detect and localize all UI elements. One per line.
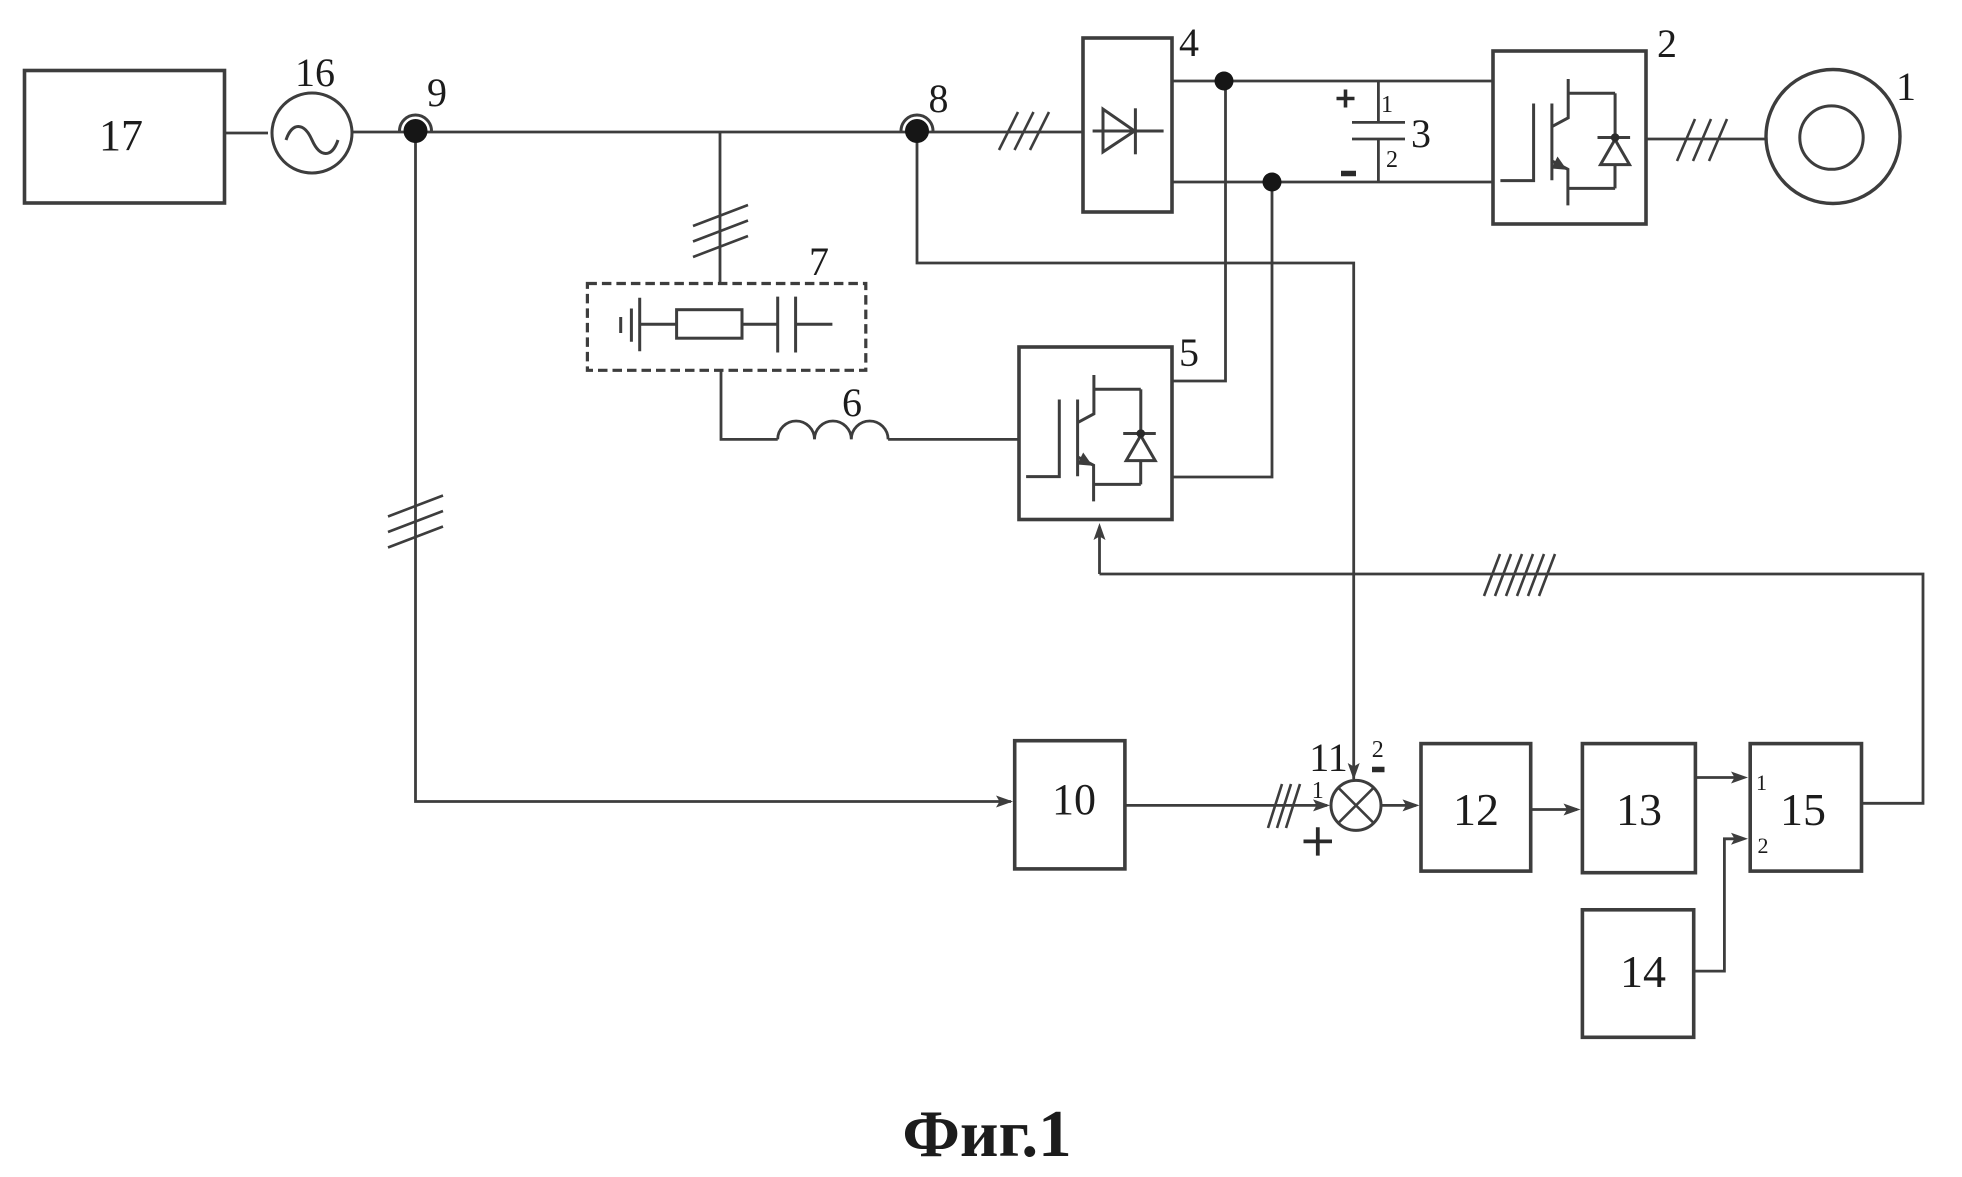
svg-text:7: 7 — [809, 239, 829, 284]
svg-text:8: 8 — [929, 76, 949, 121]
svg-text:15: 15 — [1780, 784, 1826, 835]
svg-text:1: 1 — [1896, 64, 1916, 109]
svg-text:6: 6 — [842, 380, 862, 425]
svg-text:5: 5 — [1179, 330, 1199, 375]
svg-text:12: 12 — [1453, 784, 1499, 835]
svg-text:2: 2 — [1758, 833, 1769, 858]
svg-text:11: 11 — [1309, 735, 1348, 780]
svg-text:2: 2 — [1372, 737, 1384, 763]
svg-text:2: 2 — [1386, 147, 1398, 173]
svg-text:1: 1 — [1381, 92, 1393, 118]
svg-text:16: 16 — [295, 50, 335, 95]
svg-text:Фиг.1: Фиг.1 — [902, 1097, 1071, 1171]
svg-text:1: 1 — [1312, 778, 1324, 804]
svg-text:9: 9 — [427, 70, 447, 115]
svg-text:14: 14 — [1620, 946, 1666, 997]
svg-text:4: 4 — [1179, 20, 1199, 65]
svg-text:3: 3 — [1411, 111, 1431, 156]
svg-text:2: 2 — [1657, 21, 1677, 66]
svg-text:1: 1 — [1756, 770, 1767, 795]
svg-text:13: 13 — [1616, 784, 1662, 835]
svg-text:10: 10 — [1052, 775, 1096, 824]
svg-text:17: 17 — [99, 111, 143, 160]
